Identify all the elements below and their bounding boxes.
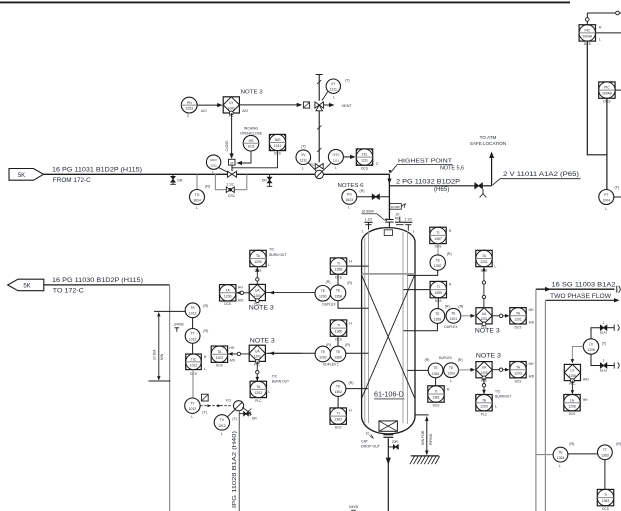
svg-text:TE: TE [451, 312, 456, 316]
TE 1362 nozzle line [346, 388, 368, 390]
svg-text:(R): (R) [205, 185, 210, 189]
instrument PN 1253 [181, 97, 207, 118]
hand switch HS 1011 [240, 126, 263, 151]
svg-text:1200: 1200 [254, 294, 261, 298]
svg-text:3: 3 [362, 229, 364, 233]
svg-text:1 1/2: 1 1/2 [226, 183, 234, 187]
label 2 V 11011 A1A2 (P65) [493, 171, 581, 185]
converter TY 1012 [185, 398, 207, 419]
packing bed top line [362, 273, 415, 275]
svg-text:TA: TA [217, 350, 222, 354]
svg-text:DCS: DCS [216, 363, 223, 367]
element TE 1358 [330, 281, 352, 301]
label 10 with break [366, 432, 374, 439]
vent line vertical [316, 75, 323, 163]
TE-TI 1361 connector [435, 378, 437, 386]
svg-text:1208: 1208 [568, 404, 576, 408]
riser from line A to vessel [385, 174, 393, 228]
TI-TE 1359 connector [437, 298, 439, 309]
svg-text:1202: 1202 [319, 355, 327, 359]
label 2 PG 11032 B1D2P [396, 178, 460, 185]
svg-text:H: H [349, 259, 352, 263]
svg-text:A/D: A/D [583, 377, 589, 381]
svg-text:1011: 1011 [210, 164, 217, 168]
switch XZSC 1211 [322, 149, 343, 171]
svg-text:1208: 1208 [569, 374, 576, 378]
svg-text:DUPLEX L: DUPLEX L [323, 363, 339, 367]
svg-text:(R): (R) [458, 358, 463, 362]
svg-text:1200: 1200 [254, 260, 262, 264]
PG 1623 stub with valve [357, 194, 390, 199]
signal TY to valve [200, 399, 232, 408]
svg-text:1363: 1363 [602, 499, 610, 503]
svg-text:DCS: DCS [481, 268, 488, 272]
TI 1359 nozzle line [404, 289, 431, 291]
label 16 PG 11030 B1D2P (H115) [52, 277, 143, 284]
svg-text:HS: HS [249, 139, 254, 143]
svg-text:TE: TE [336, 289, 341, 293]
drain valve DR right of MCV [262, 174, 272, 186]
svg-text:L: L [333, 96, 335, 100]
label 16 SG 11003 B1A2 [552, 282, 617, 289]
element TE 1202 [315, 343, 331, 362]
svg-text:3: 3 [412, 229, 414, 233]
svg-text:1012: 1012 [218, 424, 226, 428]
svg-text:TI: TI [437, 285, 440, 289]
flag 5K from 172-C [9, 169, 44, 181]
svg-text:TI: TI [337, 262, 340, 266]
signal UA down to TA burnout [256, 361, 260, 381]
svg-text:BURN OUT: BURN OUT [272, 379, 289, 383]
svg-text:1011: 1011 [247, 145, 254, 149]
svg-text:1203: 1203 [480, 371, 487, 375]
signal MZI to MCV valve stem [233, 151, 278, 168]
TE 1012 tap line [154, 310, 185, 312]
logic UA 1202 [249, 345, 265, 367]
svg-text:1004B: 1004B [602, 92, 613, 96]
TE 1361 nozzle line [407, 369, 428, 371]
svg-text:CAT: CAT [361, 439, 369, 443]
svg-text:1: 1 [603, 359, 605, 363]
svg-text:DCS: DCS [335, 425, 342, 429]
actuator XY 1211 [322, 79, 350, 101]
signal UA up to TA burnout [256, 267, 260, 284]
svg-text:1202: 1202 [216, 356, 224, 360]
logic UA 1200 [249, 284, 265, 306]
svg-text:L: L [221, 432, 223, 436]
svg-text:TE: TE [436, 258, 441, 262]
label T/C BURNOUT R2 [495, 389, 511, 398]
TT-TIC connector [192, 343, 194, 354]
svg-text:1361: 1361 [432, 372, 440, 376]
ball valve TV body [234, 401, 244, 411]
svg-text:TE: TE [558, 450, 563, 454]
svg-text:PIC: PIC [604, 86, 610, 90]
element TE 1200 [315, 280, 336, 306]
svg-text:D102P: D102P [391, 205, 400, 209]
label T/C BURN OUT L2 [272, 374, 289, 383]
svg-text:L: L [268, 390, 270, 394]
svg-text:1203: 1203 [480, 404, 488, 408]
signal TE 1203 to UA [459, 368, 476, 372]
signal PN to UY [197, 103, 223, 107]
svg-text:L: L [212, 170, 214, 174]
svg-text:(T): (T) [232, 417, 237, 421]
svg-text:DR: DR [252, 417, 257, 421]
label FROM 172-C [53, 177, 92, 184]
label MIN FOR PIPING [421, 430, 433, 445]
TI 1358 nozzle line [347, 265, 369, 267]
packing bed cross [362, 275, 415, 398]
vessel top nozzle 1 1/2 left [362, 217, 373, 233]
drain 20R [388, 440, 398, 449]
svg-text:TI: TI [434, 390, 437, 394]
alarm LA 1208 [564, 395, 588, 417]
svg-text:HH: HH [238, 286, 243, 290]
svg-text:1012: 1012 [189, 337, 197, 341]
svg-text:(R): (R) [326, 280, 331, 284]
svg-text:(R): (R) [349, 381, 354, 385]
pipe 2 PG 11032 [389, 185, 475, 187]
grade elevation line [415, 415, 429, 455]
svg-text:PIPING: PIPING [429, 433, 433, 445]
signal line PIC 1004A output right [596, 32, 621, 34]
svg-text:20R: 20R [392, 440, 399, 444]
svg-text:A/O: A/O [242, 109, 248, 113]
svg-text:DCS: DCS [361, 166, 368, 170]
svg-text:1358: 1358 [334, 294, 342, 298]
element TE 1387 [430, 252, 452, 270]
svg-text:TE: TE [435, 312, 440, 316]
svg-text:A/D: A/D [238, 298, 244, 302]
alarm TA 1201 [510, 308, 535, 330]
svg-text:C: C [187, 114, 190, 118]
svg-text:T/C: T/C [269, 248, 275, 252]
label NOTE 3 R2 [476, 352, 502, 359]
signal UA to TA 1201 [492, 314, 509, 318]
svg-text:1363: 1363 [557, 456, 565, 460]
svg-text:(T): (T) [345, 79, 350, 83]
ground grade hatch [410, 456, 440, 464]
svg-text:1060: 1060 [228, 106, 235, 110]
svg-text:A/O: A/O [201, 109, 207, 113]
vessel internal feed box [384, 230, 392, 236]
label NOTES 6 [338, 183, 364, 189]
indicator TI 1361 [428, 386, 450, 408]
svg-text:1201: 1201 [480, 260, 488, 264]
TE-TT 1363 line [568, 453, 598, 455]
svg-text:LX: LX [589, 342, 594, 346]
label NOTE 3 R1 [475, 328, 501, 335]
svg-text:BURN OUT: BURN OUT [269, 253, 286, 257]
signal HS to MCV actuator [237, 151, 252, 165]
svg-text:1201: 1201 [450, 317, 458, 321]
svg-text:DCS: DCS [224, 302, 231, 306]
svg-text:L: L [302, 167, 304, 171]
logic UA 1201 [476, 308, 492, 330]
indicator TI 1362 [330, 408, 352, 430]
svg-text:TA: TA [226, 288, 231, 292]
svg-text:1004: 1004 [603, 198, 611, 202]
switch MZI 1011 [269, 134, 285, 155]
element TE 1201 [444, 305, 463, 329]
vessel tag 61-106-D [374, 389, 404, 399]
svg-text:DCS: DCS [515, 326, 522, 330]
svg-text:1: 1 [603, 321, 605, 325]
svg-text:TI: TI [604, 493, 607, 497]
svg-text:1012: 1012 [189, 407, 197, 411]
svg-text:L: L [599, 38, 601, 42]
TI-TE 1360 connector [337, 336, 339, 347]
signal LT to LX logic [571, 347, 584, 364]
signal UY down to MCV actuator [225, 113, 234, 159]
svg-text:XZSC: XZSC [332, 153, 339, 157]
sheet top border line [0, 1, 570, 3]
indicator TI 1360 [330, 320, 352, 341]
signal line PIC 1004B output right [615, 89, 621, 91]
transmitter LT 1208 [583, 339, 606, 354]
label 16 PG 11031 B1D2P (H115) [52, 167, 142, 174]
svg-text:PG: PG [347, 193, 352, 197]
pipe 16 SG 11003 [536, 287, 615, 511]
alarm TA 1203 [510, 362, 535, 384]
solenoid box [303, 102, 309, 108]
branch fork symbol [242, 407, 251, 414]
svg-text:H: H [349, 409, 352, 413]
svg-text:A/D: A/D [529, 374, 535, 378]
TE-TT connector [192, 318, 194, 329]
svg-text:1 1/2: 1 1/2 [365, 217, 372, 221]
label 3/4VB bottom [349, 505, 359, 510]
TI-TE 1358 connector [337, 274, 339, 285]
svg-text:1359: 1359 [434, 317, 442, 321]
svg-text:OPEN/CLOSE: OPEN/CLOSE [240, 132, 263, 136]
TE 1363 stub [536, 454, 553, 456]
svg-text:1814: 1814 [193, 198, 201, 202]
positioner MCV 1011 [206, 155, 228, 174]
svg-text:NOTE 3: NOTE 3 [476, 352, 502, 359]
logic LX 1208 [564, 364, 589, 386]
svg-text:1203: 1203 [514, 371, 522, 375]
svg-text:H: H [447, 387, 450, 391]
svg-text:5K: 5K [18, 173, 25, 179]
svg-text:HH: HH [583, 398, 588, 402]
signal line PIC 1004A down to junction [587, 41, 607, 155]
svg-text:CLOSE: CLOSE [225, 141, 229, 152]
svg-text:PN: PN [187, 101, 192, 105]
light XZL 1211 [356, 149, 379, 171]
svg-text:L: L [191, 415, 193, 419]
signal LX to LA [571, 381, 574, 395]
block valve on 2PG line [475, 183, 492, 189]
svg-text:H: H [349, 321, 352, 325]
svg-text:HH: HH [529, 362, 534, 366]
svg-text:20 DIA: 20 DIA [153, 349, 157, 360]
svg-text:HH: HH [229, 346, 234, 350]
svg-text:MH: MH [395, 216, 401, 220]
svg-text:5K: 5K [23, 284, 30, 290]
svg-text:1200: 1200 [319, 295, 327, 299]
dimension 20 DIA MIN [153, 312, 165, 381]
alarm TA 1203 burnout [476, 395, 497, 417]
svg-text:TE: TE [336, 350, 341, 354]
signal UY to solenoid [239, 103, 302, 107]
svg-text:PT: PT [604, 193, 608, 197]
svg-text:10: 10 [366, 432, 370, 436]
svg-text:1208: 1208 [587, 348, 595, 352]
svg-text:LA: LA [570, 398, 575, 402]
svg-text:MCV: MCV [210, 158, 217, 162]
element TE 1362 [330, 381, 353, 397]
svg-text:SAFE LOCATION: SAFE LOCATION [470, 141, 506, 146]
indicator TI 1359 [430, 281, 452, 303]
svg-text:2 V 11011 A1A2 (P65): 2 V 11011 A1A2 (P65) [503, 171, 579, 178]
svg-text:(R): (R) [203, 329, 208, 333]
svg-text:(R): (R) [345, 343, 350, 347]
label NOTE 3 L1 [249, 304, 275, 311]
signal TE 1202 to UA [265, 351, 301, 355]
svg-text:1211: 1211 [330, 88, 337, 92]
svg-text:L: L [268, 263, 270, 267]
svg-text:BURNOUT: BURNOUT [495, 394, 511, 398]
svg-text:DCS: DCS [515, 380, 522, 384]
svg-text:2 PG 11032 B1D2P: 2 PG 11032 B1D2P [396, 178, 460, 185]
signal UA down to TA 1203 burnout [482, 378, 486, 394]
bypass pipe around MCV valve [215, 174, 246, 189]
svg-text:DUPLEX: DUPLEX [444, 325, 458, 329]
svg-text:1211: 1211 [361, 159, 368, 163]
svg-text:NOTE 3: NOTE 3 [249, 304, 275, 311]
drain valve DR on line A [170, 174, 183, 184]
svg-text:XV: XV [301, 153, 306, 157]
signal XZSC to XZL [343, 155, 355, 159]
ball valve on line A [315, 170, 323, 178]
label TWO PHASE FLOW [550, 293, 611, 300]
LT upper tap with valve [591, 321, 619, 339]
TE-TI 1362 connector [337, 396, 339, 408]
svg-text:FROM 172-C: FROM 172-C [53, 177, 92, 184]
svg-text:L: L [495, 404, 497, 408]
cat drop out line [386, 438, 391, 511]
svg-text:(R): (R) [347, 281, 352, 285]
indicator TI 1358 [330, 258, 352, 279]
label 16 600# [362, 210, 388, 222]
bypass valve 1 1/2 CSC [226, 183, 235, 198]
svg-text:(T): (T) [202, 411, 207, 415]
svg-text:FO: FO [226, 399, 231, 403]
svg-text:(R): (R) [360, 189, 365, 193]
svg-text:TIC: TIC [191, 357, 197, 361]
svg-text:A/D: A/D [229, 359, 235, 363]
svg-text:(R): (R) [569, 442, 574, 446]
svg-text:PLC: PLC [255, 399, 262, 403]
controller PIC 1004B [599, 82, 615, 104]
element TE 1359 [430, 305, 450, 324]
svg-text:1359: 1359 [435, 291, 443, 295]
LT lower tap with valve [591, 354, 619, 372]
signal line to off-sheet top right [586, 11, 621, 24]
logic UY 1060 [223, 97, 248, 118]
label TO ATM SAFE LOCATION [470, 135, 506, 146]
svg-text:1362: 1362 [334, 390, 342, 394]
alarm TA 1200 burnout [250, 250, 271, 272]
svg-text:1203: 1203 [447, 372, 455, 376]
svg-text:1011: 1011 [274, 144, 281, 148]
element TE 1363 [553, 442, 574, 468]
svg-text:(R): (R) [445, 305, 450, 309]
svg-text:MZI: MZI [275, 138, 281, 142]
svg-text:(R): (R) [447, 252, 452, 256]
svg-text:DUPLEX: DUPLEX [439, 356, 453, 360]
svg-text:1362: 1362 [334, 418, 342, 422]
svg-text:1211: 1211 [333, 158, 339, 162]
svg-text:16 PG 11031 B1D2P (H11: 16 PG 11031 B1D2P (H115) [52, 167, 142, 174]
svg-text:IPG 11028 B1A2 (H40): IPG 11028 B1A2 (H40) [232, 431, 238, 508]
vessel bottom outlet vortex breaker [379, 421, 397, 431]
svg-text:(R): (R) [326, 343, 331, 347]
element TE 1012 [185, 303, 208, 318]
gauge TG 1814 [190, 185, 211, 210]
svg-text:PLC: PLC [481, 412, 488, 416]
svg-text:TE: TE [321, 289, 326, 293]
svg-text:1012: 1012 [189, 312, 197, 316]
svg-text:NOTE 3: NOTE 3 [241, 90, 263, 96]
vessel 61-106-D shell [362, 228, 415, 434]
pipe 16 PG 11030 [44, 284, 170, 286]
svg-text:MIN FOR: MIN FOR [421, 430, 425, 445]
gauge PG 1623 [342, 189, 365, 210]
svg-text:1360: 1360 [334, 355, 342, 359]
svg-text:T/C: T/C [272, 374, 278, 378]
svg-text:1202: 1202 [254, 355, 261, 359]
svg-text:INCHING: INCHING [244, 126, 259, 130]
dimension lower tick [149, 380, 171, 382]
svg-text:L: L [196, 206, 198, 210]
svg-text:PIC: PIC [584, 29, 590, 33]
svg-text:CSC: CSC [228, 194, 236, 198]
svg-text:DCS: DCS [433, 403, 440, 407]
signal node L2 [227, 352, 249, 356]
gauge stub to TG 1814 [196, 174, 198, 189]
svg-text:DR: DR [262, 179, 267, 183]
svg-text:H: H [449, 229, 452, 233]
svg-text:TT: TT [191, 332, 195, 336]
element TE 1361 [428, 363, 443, 378]
alarm TA 1200 [220, 285, 245, 306]
svg-text:1253: 1253 [185, 107, 193, 111]
svg-text:3/4VB: 3/4VB [174, 323, 184, 327]
line break right 16SG [617, 286, 621, 293]
svg-text:NOTE 3: NOTE 3 [250, 337, 276, 344]
indicator TI 1387 [430, 227, 452, 249]
solenoid valve XV 1211 [296, 144, 316, 171]
TE 1358 nozzle path [338, 301, 369, 309]
TT-TI 1363 connector [604, 460, 606, 490]
signal TE 1201 to UA [461, 314, 475, 318]
svg-text:TI: TI [337, 412, 340, 416]
logic UA 1203 [476, 362, 492, 383]
svg-text:L: L [494, 264, 496, 268]
labels duplex lower right [425, 356, 463, 362]
svg-text:1623: 1623 [346, 198, 354, 202]
svg-text:L: L [450, 379, 452, 383]
valve body below vent line [310, 163, 323, 169]
svg-text:1201: 1201 [514, 317, 522, 321]
label NOTE 3 L2 [250, 337, 276, 344]
transmitter TT 1363 [598, 442, 621, 460]
vessel top manway 20 MH [395, 212, 405, 224]
signal UA up to TA 1201 burnout [482, 267, 486, 308]
